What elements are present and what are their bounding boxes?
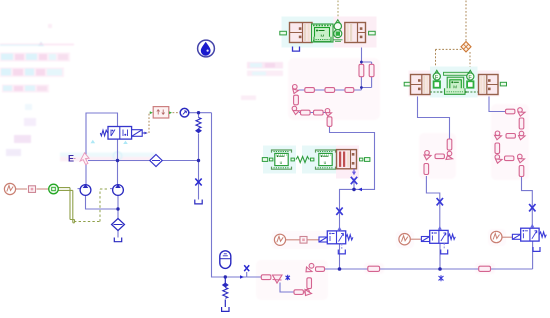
hose rect A1 bbox=[305, 88, 315, 93]
hose D elbow bottom bbox=[305, 289, 312, 295]
cursor pointer bbox=[80, 153, 89, 165]
wire gauge1 to box to motor bbox=[16, 188, 28, 190]
prop valve PV2 center section bbox=[430, 72, 478, 94]
hose rect A4 vertical bbox=[294, 95, 299, 105]
wire hose top to bus bbox=[325, 268, 533, 270]
reducing valve section 1 bbox=[272, 150, 292, 169]
pump P1 bbox=[78, 184, 91, 195]
junction pump collector bbox=[116, 207, 119, 210]
prop valve PV1 drain mark bbox=[334, 40, 343, 42]
hose C elbow left2 bbox=[495, 155, 502, 164]
wire bus risers G1 G2 bbox=[340, 244, 441, 269]
faint washed band near pump line bbox=[60, 152, 155, 162]
G1 solenoid bbox=[319, 237, 327, 242]
hose C rect v2 bbox=[495, 143, 500, 154]
amplifier card bbox=[150, 107, 172, 118]
hose rect A6 bbox=[314, 110, 324, 115]
hose D coupler top bbox=[306, 263, 314, 271]
highlight tint valve PV2 bbox=[409, 71, 431, 97]
hose elbow A top bbox=[293, 85, 299, 94]
faint text row 3 bbox=[2, 85, 49, 93]
G3 inlet arrow bbox=[530, 224, 534, 228]
hose elbow A right bbox=[325, 109, 331, 117]
hose rect A5 bbox=[301, 110, 311, 115]
hose C rect v1 bbox=[519, 118, 524, 129]
pump P2 bbox=[110, 184, 123, 195]
tank below strainer bbox=[114, 238, 121, 242]
tank relief drain bbox=[195, 200, 202, 204]
wire G1 valve to junction A bbox=[340, 189, 355, 230]
dashed mech shaft link bbox=[74, 189, 107, 222]
G3 spring bbox=[539, 232, 546, 237]
wire G3 feed lower bbox=[522, 177, 533, 228]
hose C coupler right bbox=[518, 154, 525, 163]
wire G3 gauge link bbox=[502, 236, 512, 238]
hose B elbow bbox=[446, 151, 453, 159]
hose C rect top1 bbox=[506, 109, 515, 114]
reducing valve left port bbox=[262, 158, 273, 162]
junction A dot bbox=[352, 188, 356, 192]
wire pump1 riser and bypass loop bbox=[86, 113, 118, 185]
hose D rect vertical bbox=[307, 278, 312, 289]
wire valve1 right output bbox=[361, 43, 363, 63]
G2 valve body bbox=[430, 230, 448, 243]
cyan flow arrows under valve V1 bbox=[91, 140, 96, 143]
G1 plugged X bbox=[336, 208, 342, 215]
reducing valve right port bbox=[360, 158, 370, 162]
wire junction A to return riser bbox=[330, 127, 375, 189]
plugged port X accumulator branch bbox=[244, 265, 249, 271]
wire valve1 tank stub bbox=[295, 43, 297, 47]
tee dots parallel branch bbox=[360, 61, 363, 64]
unloading valve V1 body bbox=[108, 127, 132, 140]
hose C rect mid2 bbox=[505, 156, 514, 161]
bus hose rect 1 bbox=[368, 266, 380, 271]
drain arrow below spool bbox=[353, 169, 355, 173]
hose C coupler top bbox=[518, 108, 525, 117]
prop valve PV1 center section bbox=[312, 24, 334, 42]
prop valve PV2 left port bbox=[404, 82, 410, 86]
G3 tank bbox=[533, 247, 540, 251]
prop valve PV1 sensor circle top bbox=[335, 20, 341, 25]
faint small marks column left bbox=[6, 104, 36, 156]
wire pump discharge collector bbox=[86, 195, 119, 237]
wire parallel branch tees bbox=[361, 62, 371, 90]
hose B rect vertical top bbox=[447, 139, 452, 150]
wire G2 gauge link bbox=[411, 238, 422, 240]
junction relief tee bbox=[197, 111, 200, 114]
G3 valve body bbox=[521, 228, 539, 241]
prop valve PV2 F sensor right bbox=[467, 70, 474, 87]
wire G1 gauge link bbox=[286, 239, 319, 241]
relief valve spring bbox=[196, 118, 202, 133]
parallel orifice left bbox=[359, 64, 364, 76]
G2 plugged X bbox=[437, 198, 443, 205]
faint text row 1 bbox=[0, 53, 70, 62]
wire valve V1 bottom to pump2 bbox=[117, 139, 119, 185]
highlight tint valve PV1 bbox=[282, 17, 334, 48]
flow arrow into junction A bbox=[358, 188, 362, 192]
prop valve PV1 right block bbox=[345, 23, 366, 43]
reducing valve spring link bbox=[291, 157, 314, 163]
tank PV1 left block bbox=[293, 47, 300, 52]
prop valve PV2 left block bbox=[411, 75, 431, 95]
hose D rect h2 bbox=[294, 290, 303, 295]
strainer filter below pumps bbox=[112, 219, 125, 231]
G2 gauge bbox=[399, 234, 410, 245]
dashed signal net valve2 bbox=[436, 1, 471, 73]
wire valve3 drain bbox=[353, 171, 355, 189]
bus hose rect 2 bbox=[479, 266, 491, 271]
valve V1 proportional solenoid bbox=[132, 130, 148, 137]
check valve D bbox=[273, 275, 283, 283]
drive signal box bbox=[29, 186, 36, 193]
flow arrow accumulator line bbox=[240, 275, 244, 279]
G2 spring bbox=[448, 234, 455, 239]
wire return run y90 bbox=[299, 89, 362, 91]
halo hose chain A bbox=[288, 58, 380, 120]
prop valve PV1 left port bbox=[280, 31, 287, 35]
hose rect A3 bbox=[345, 88, 354, 93]
wire G2 feed upper bbox=[418, 95, 450, 139]
wire G2 feed lower bbox=[426, 176, 439, 231]
reducing valve spool block bbox=[337, 150, 357, 169]
wire check valve drop to hose elbow bbox=[280, 283, 294, 293]
G2 solenoid bbox=[421, 237, 429, 242]
G1 valve body bbox=[327, 231, 345, 244]
G2 drain stub and tank bbox=[443, 243, 445, 249]
hose elbow A bottom bbox=[292, 106, 299, 114]
hose D rect h1 bbox=[261, 275, 271, 280]
asterisk near check valve bbox=[286, 275, 290, 280]
dashed signal valveV1 to amplifier bbox=[146, 113, 154, 133]
bus asterisk mark bbox=[439, 275, 444, 281]
halo hose chain C bbox=[491, 104, 529, 180]
dashed signal valve1 solenoid top bbox=[337, 1, 339, 23]
accumulator relief valve bbox=[223, 277, 229, 307]
plugged port X drain PRV bbox=[351, 177, 357, 184]
reducing valve section 2 bbox=[316, 150, 336, 169]
wire long pressure line to accumulator bbox=[212, 113, 221, 277]
wire return run y112.5 bbox=[299, 112, 327, 114]
motor shaft double line bbox=[58, 188, 75, 223]
faint text row 2 bbox=[0, 68, 64, 78]
hose D rect top bbox=[316, 267, 325, 272]
wire relief column bbox=[198, 113, 200, 200]
faint text mid rows near x 250 bbox=[241, 62, 283, 100]
hose C coupler mid bbox=[495, 131, 502, 140]
G3 plugged X bbox=[529, 204, 535, 211]
parallel orifice right bbox=[369, 64, 374, 76]
tank accumulator relief bbox=[222, 307, 229, 311]
prop valve PV1 sensor circle bottom bbox=[334, 30, 342, 38]
prop valve PV2 right port bbox=[500, 82, 506, 86]
halo bus rects bbox=[364, 263, 384, 274]
G1 spring bbox=[346, 235, 353, 240]
prop valve PV1 right port bbox=[369, 31, 376, 35]
G1 drain stub and tank bbox=[341, 244, 343, 249]
hose C elbow left1 bbox=[519, 131, 526, 140]
accumulator bbox=[220, 251, 231, 269]
hose B rect mid bbox=[435, 154, 444, 159]
junction suction tee bbox=[116, 159, 119, 162]
valve V1 spring bbox=[100, 130, 107, 136]
halo gauges bottom bbox=[272, 231, 330, 249]
G1 signal box bbox=[300, 237, 307, 244]
fluid properties icon bbox=[198, 40, 215, 57]
dashed signal amplifier to gauge bbox=[169, 112, 180, 114]
wire main suction line horizontal bbox=[88, 160, 199, 162]
pressure transducer bbox=[180, 108, 189, 117]
wire accumulator node to X-branch bbox=[220, 272, 261, 277]
electric motor M1 bbox=[49, 184, 59, 194]
hose B coupler bbox=[424, 151, 431, 160]
test point diamond bbox=[461, 42, 471, 52]
G3 solenoid bbox=[512, 234, 520, 239]
G1 gauge bbox=[274, 234, 285, 245]
plugged port X relief drain bbox=[195, 179, 201, 186]
hose C rect mid1 bbox=[506, 134, 515, 139]
G2 inlet arrow bbox=[438, 226, 442, 230]
halo hose chain B bbox=[419, 133, 456, 179]
hose B rect vertical bottom bbox=[424, 164, 429, 175]
bus junction dots bbox=[338, 267, 342, 271]
wire G3 bus riser bbox=[532, 242, 534, 270]
wire gauge to pressure tee bbox=[189, 112, 212, 114]
drive gauge RPM bbox=[4, 183, 15, 194]
G3 gauge bbox=[491, 231, 502, 242]
hose C rect v3 bbox=[519, 166, 524, 177]
G1 inlet arrow bbox=[338, 227, 342, 231]
hose rect A2 bbox=[325, 88, 335, 93]
hose rect A7 vertical bbox=[327, 117, 332, 127]
highlight tint valve PRV bbox=[263, 146, 296, 174]
prop valve PV2 F sensor left bbox=[433, 70, 440, 87]
wire G3 feed upper bbox=[489, 95, 506, 112]
prop valve PV2 right block bbox=[479, 75, 499, 95]
junction accumulator tee bbox=[224, 275, 227, 278]
halo hose chain D bbox=[256, 260, 328, 300]
junction relief drain tee bbox=[197, 159, 200, 162]
prop valve PV1 left block bbox=[290, 23, 313, 43]
faint caret marker row bbox=[0, 24, 74, 46]
filter diamond suction bbox=[150, 155, 162, 167]
